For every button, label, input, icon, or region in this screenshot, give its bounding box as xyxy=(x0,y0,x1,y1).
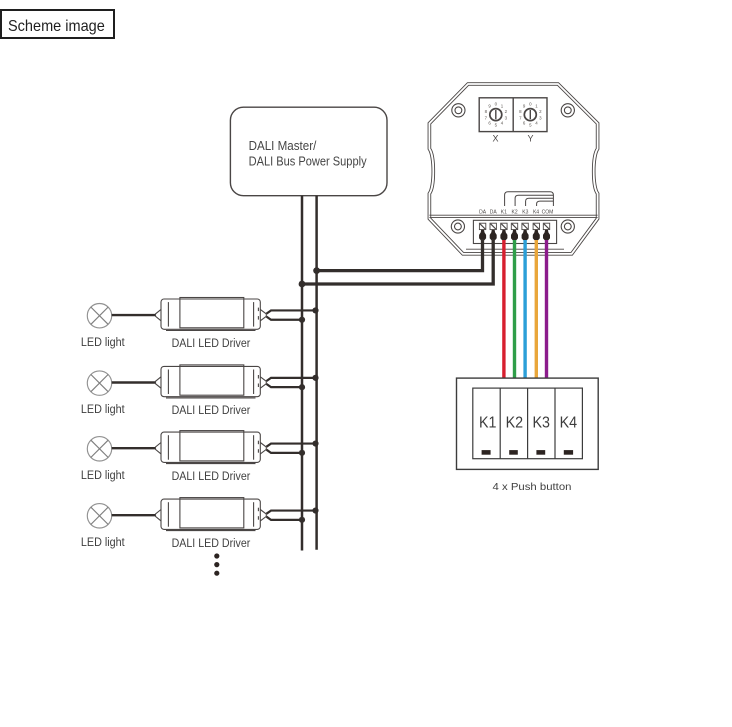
svg-text:Y: Y xyxy=(527,134,533,144)
svg-text:4 x Push button: 4 x Push button xyxy=(493,481,572,493)
svg-text:K2: K2 xyxy=(506,414,524,431)
svg-text:K1: K1 xyxy=(501,210,507,216)
svg-text:DALI Master/: DALI Master/ xyxy=(249,138,317,153)
svg-text:Scheme image: Scheme image xyxy=(8,18,105,35)
svg-text:K1: K1 xyxy=(479,414,497,431)
svg-text:K4: K4 xyxy=(560,414,578,431)
svg-text:DA: DA xyxy=(490,210,498,216)
svg-text:K3: K3 xyxy=(532,414,550,431)
svg-text:COM: COM xyxy=(542,210,554,216)
svg-text:X: X xyxy=(492,134,498,144)
svg-text:DA: DA xyxy=(479,210,487,216)
svg-text:K4: K4 xyxy=(533,210,539,216)
svg-text:K3: K3 xyxy=(522,210,528,216)
svg-text:DALI Bus Power Supply: DALI Bus Power Supply xyxy=(249,154,367,169)
svg-text:K2: K2 xyxy=(512,210,518,216)
